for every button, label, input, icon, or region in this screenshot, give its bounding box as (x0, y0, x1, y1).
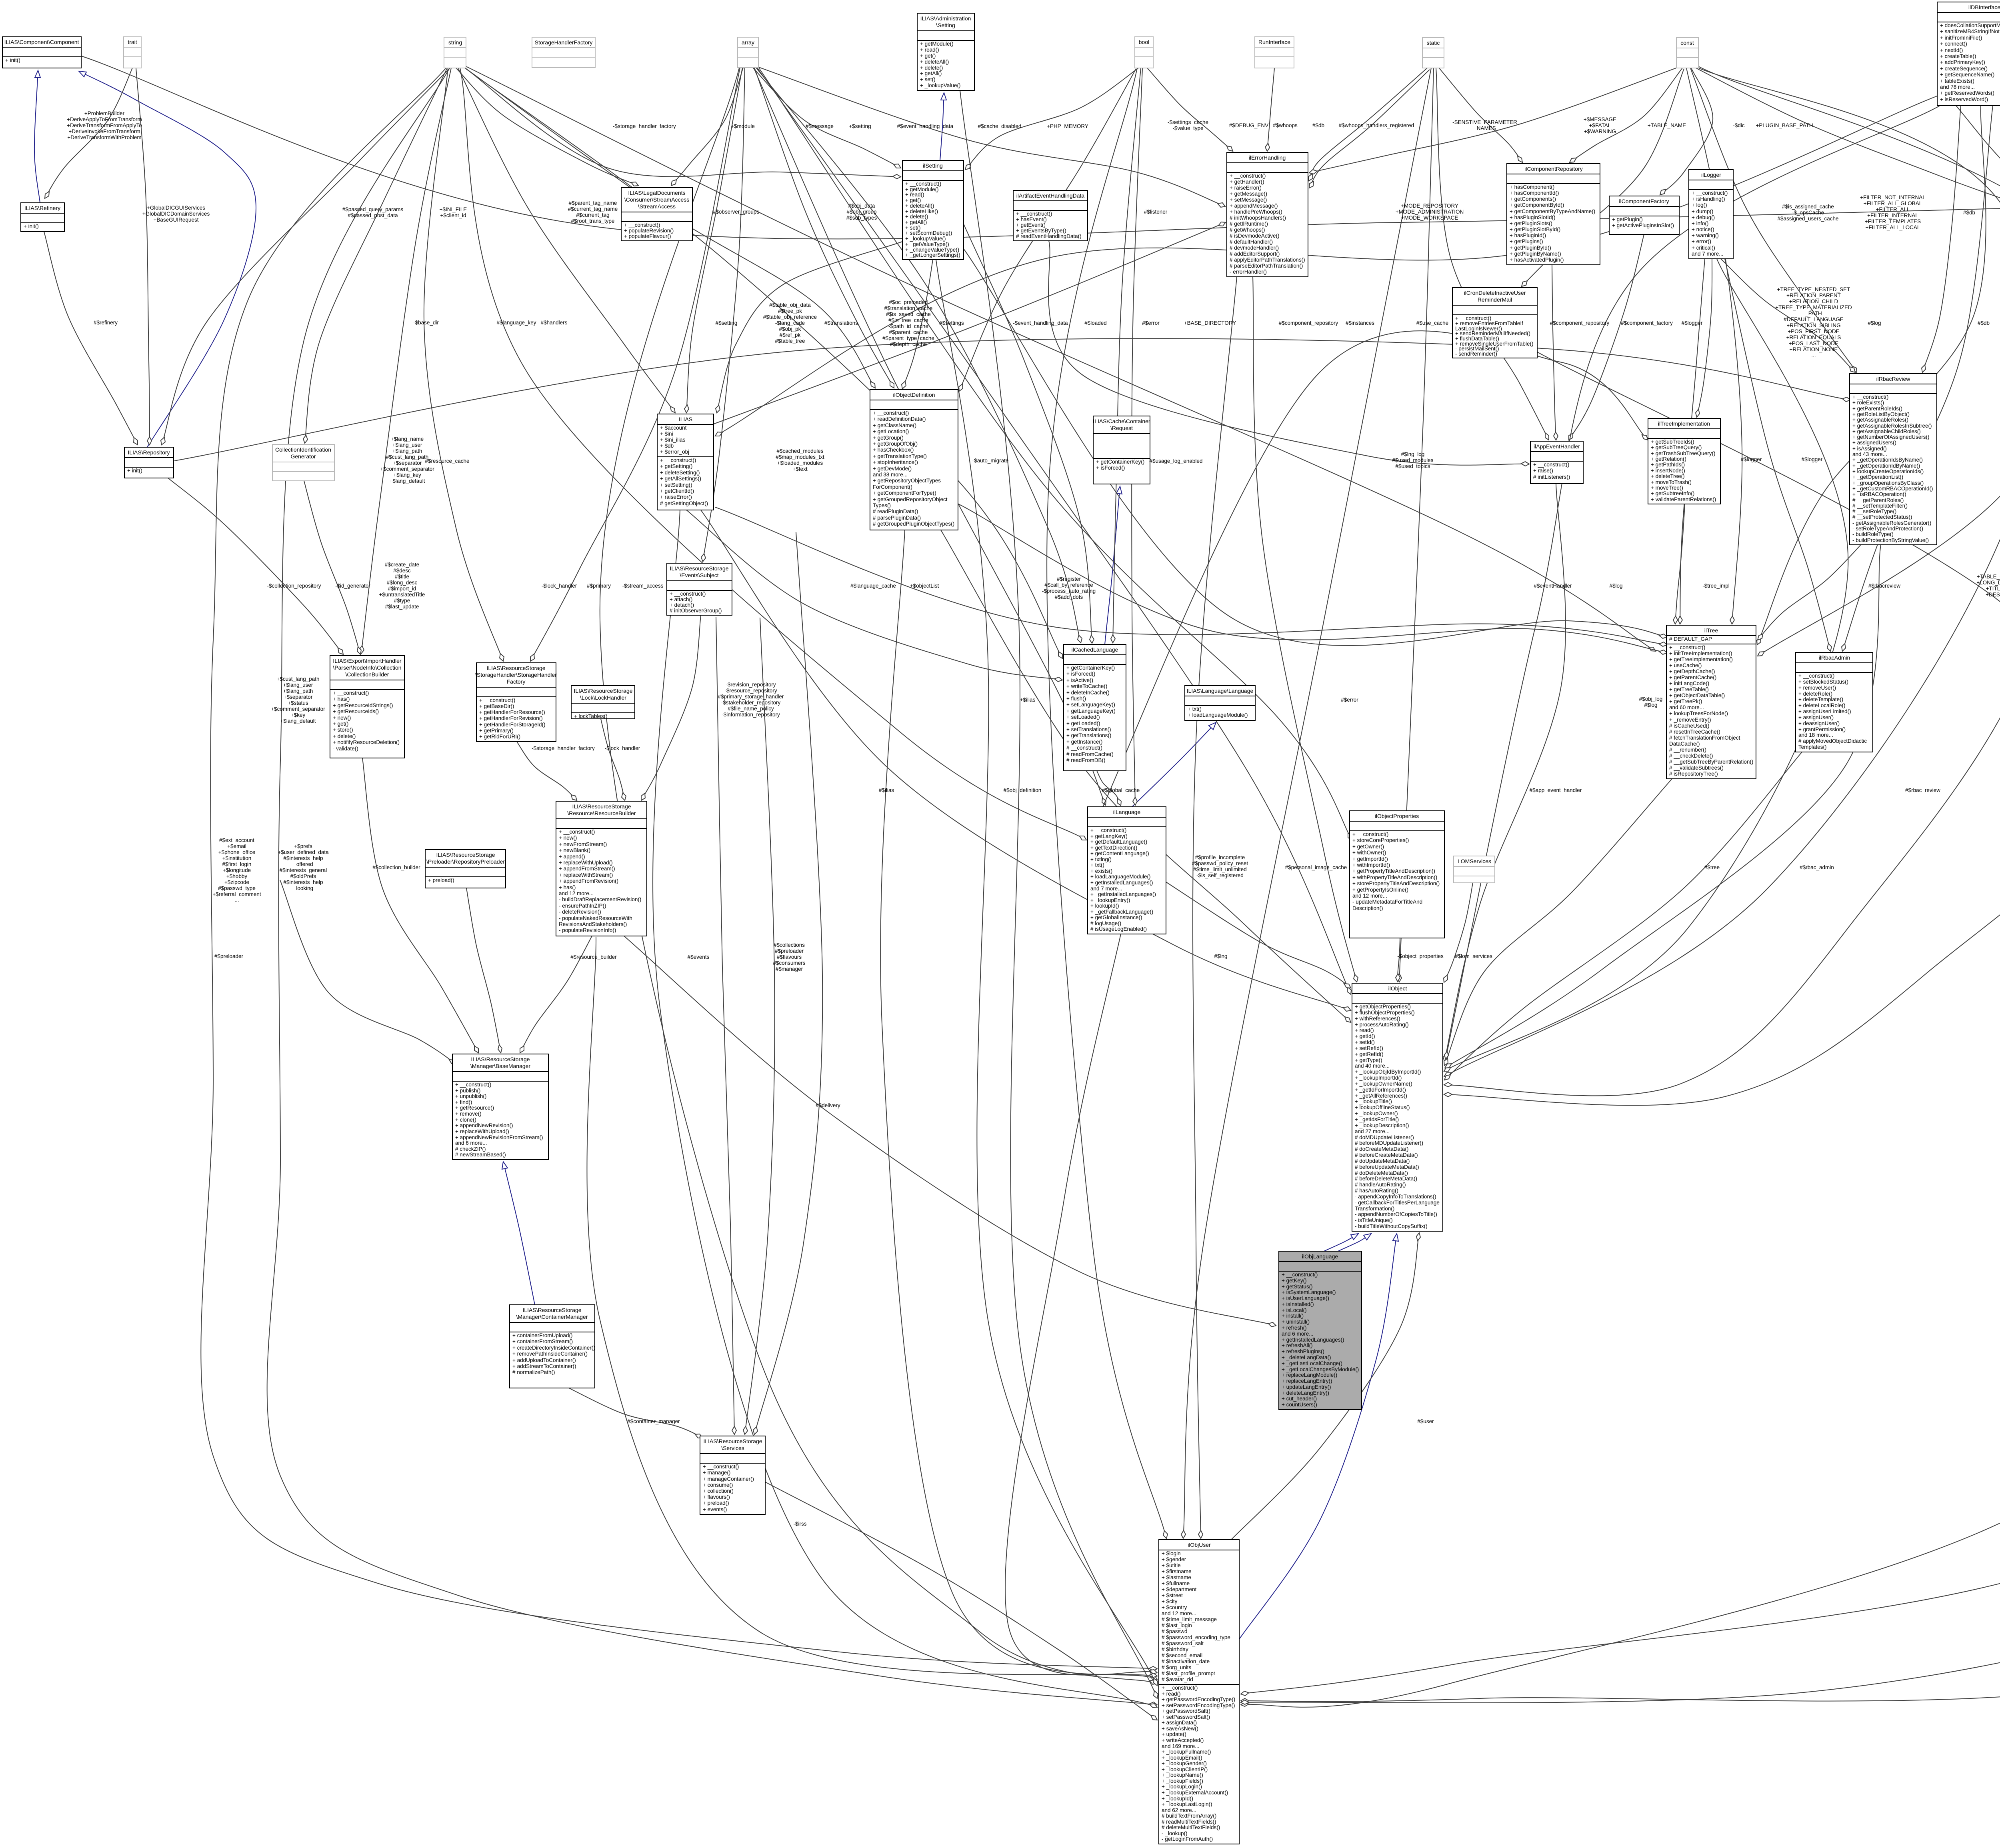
class AdminSetting (917, 13, 974, 90)
svg-text:#$collections#$preloader#$flav: #$collections#$preloader#$flavours#$cons… (773, 942, 805, 972)
svg-text:ilObjectDefinition: ilObjectDefinition (893, 392, 935, 398)
svg-text:\StorageHandler\StorageHandler: \StorageHandler\StorageHandler (475, 672, 557, 678)
svg-text:+ _lookupEmail(): + _lookupEmail() (1162, 1755, 1202, 1761)
svg-text:and 60 more...: and 60 more... (1669, 704, 1704, 710)
svg-text:+ storeCoreProperties(): + storeCoreProperties() (1352, 837, 1409, 843)
svg-text:#$usage_log_enabled: #$usage_log_enabled (1150, 458, 1203, 464)
svg-text:#$obj_data#$obj_group#$sub_typ: #$obj_data#$obj_group#$sub_types (846, 203, 877, 221)
class RepositoryPreloader (425, 850, 506, 888)
wire string-&gt;SHFactory (424, 68, 503, 661)
svg-text:RunInterface: RunInterface (1258, 39, 1290, 45)
svg-text:+ get(): + get() (333, 721, 348, 727)
svg-text:#$rbacreview: #$rbacreview (1868, 583, 1901, 589)
svg-text:+ notice(): + notice() (1692, 226, 1714, 232)
svg-text:+ processAutoRating(): + processAutoRating() (1355, 1022, 1409, 1028)
svg-text:+ getHandlerForResource(): + getHandlerForResource() (479, 709, 545, 715)
svg-text:+ __construct(): + __construct() (624, 222, 660, 228)
wire Refinery-&gt;Repository (44, 232, 138, 445)
svg-text:+ lookupOfflineStatus(): + lookupOfflineStatus() (1355, 1104, 1410, 1110)
svg-text:ILIAS\ResourceStorage: ILIAS\ResourceStorage (670, 565, 728, 572)
svg-text:+ getPluginSlots(): + getPluginSlots() (1510, 220, 1552, 226)
svg-text:+ getObjectProperties(): + getObjectProperties() (1355, 1004, 1411, 1010)
svg-text:+ new(): + new() (333, 715, 351, 721)
svg-text:#$container_manager: #$container_manager (627, 1418, 680, 1424)
wire ilCronDelete-&gt;ilObjUser (1241, 352, 2000, 1707)
svg-text:ReminderMail: ReminderMail (1478, 296, 1512, 303)
svg-text:#$whoops: #$whoops (1273, 122, 1298, 128)
svg-text:ilLanguage: ilLanguage (1113, 809, 1141, 815)
svg-text:+ getComponentForType(): + getComponentForType() (873, 490, 936, 496)
svg-text:ilAppEventHandler: ilAppEventHandler (1534, 443, 1580, 450)
svg-text:+ getInstalledLanguages(): + getInstalledLanguages() (1090, 880, 1153, 886)
svg-text:#$oc_preloaded#$translation_ca: #$oc_preloaded#$translation_cache#$is_sa… (882, 299, 934, 347)
svg-text:+ loadLanguageModule(): + loadLanguageModule() (1188, 712, 1248, 718)
svg-text:ilCronDeleteInactiveUser: ilCronDeleteInactiveUser (1464, 290, 1526, 296)
wire const-&gt;ilComponentRepository (1570, 68, 1682, 162)
svg-text:# __construct(): # __construct() (1066, 745, 1102, 751)
svg-text:+ getRidForURI(): + getRidForURI() (479, 734, 520, 740)
svg-text:- validate(): - validate() (333, 746, 358, 752)
wire array-&gt;Subject (703, 68, 745, 562)
svg-text:+ __construct(): + __construct() (333, 690, 369, 696)
svg-text:# parseEditorPathTranslation(): # parseEditorPathTranslation() (1230, 263, 1303, 269)
class ilRbacAdmin (1796, 652, 1873, 752)
svg-text:+ hasPluginSlotId(): + hasPluginSlotId() (1510, 214, 1555, 220)
svg-text:#$collection_builder: #$collection_builder (372, 864, 420, 870)
svg-text:+ getBaseDir(): + getBaseDir() (479, 703, 514, 709)
wire ilRbacReview-&gt;ilObject (1445, 545, 1881, 1068)
svg-text:+TABLE_NAME: +TABLE_NAME (1648, 122, 1686, 128)
svg-text:+ txtlng(): + txtlng() (1090, 856, 1112, 862)
svg-text:+ dump(): + dump() (1692, 208, 1713, 214)
svg-text:and 38 more...: and 38 more... (873, 472, 908, 478)
svg-text:+ getRefId(): + getRefId() (1355, 1051, 1384, 1057)
wire ilErrorHandling-&gt;ilObject (1253, 277, 1357, 982)
wire ilLogger-&gt;ilTree (1680, 259, 1705, 624)
wire ilObjLanguage-&gt;ilObject2 (1338, 1234, 1371, 1251)
svg-text:+ readDefinitionData(): + readDefinitionData() (873, 416, 926, 422)
wire string-&gt;ilObjUser-b (267, 68, 1157, 1705)
svg-text:+ deleteRole(): + deleteRole() (1798, 691, 1832, 697)
svg-text:ilArtifactEventHandlingData: ilArtifactEventHandlingData (1016, 192, 1085, 199)
svg-text:ILIAS\ResourceStorage: ILIAS\ResourceStorage (572, 803, 631, 810)
svg-text:+ getEvent(): + getEvent() (1016, 222, 1046, 228)
class ilArtifactEventHandlingData (1013, 190, 1088, 241)
svg-text:+ log(): + log() (1692, 202, 1707, 208)
wire ILIAS-&gt;ilObject (701, 510, 1351, 1010)
svg-text:+ getComponentByTypeAndName(): + getComponentByTypeAndName() (1510, 208, 1595, 214)
svg-text:+ read(): + read() (905, 192, 924, 198)
svg-text:+ deleteAll(): + deleteAll() (920, 59, 949, 65)
svg-text:#$language_cache: #$language_cache (850, 583, 896, 589)
svg-text:+ __construct(): + __construct() (1016, 211, 1052, 217)
svg-text:#$personal_image_cache: #$personal_image_cache (1285, 864, 1347, 870)
svg-text:+ __construct(): + __construct() (559, 829, 595, 835)
svg-text:+$INI_FILE+$client_id: +$INI_FILE+$client_id (440, 206, 467, 218)
class ContainerManager (510, 1305, 595, 1388)
svg-text:+ getHandlerForStorageId(): + getHandlerForStorageId() (479, 722, 545, 728)
svg-text:ILIAS\ResourceStorage: ILIAS\ResourceStorage (574, 688, 632, 694)
svg-text:+ setRefId(): + setRefId() (1355, 1045, 1383, 1051)
svg-text:ilTreeImplementation: ilTreeImplementation (1658, 420, 1710, 427)
wire ilTreeImpl-&gt;ilTree (1675, 504, 1685, 624)
svg-text:and 12 more...: and 12 more... (1162, 1610, 1196, 1616)
svg-text:ILIAS\ResourceStorage: ILIAS\ResourceStorage (471, 1056, 530, 1062)
svg-text:LOMServices: LOMServices (1458, 858, 1491, 864)
wire BaseManager-&gt;Services-1 (716, 617, 734, 1434)
svg-text:-$dic: -$dic (1733, 122, 1745, 128)
svg-text:+FILTER_NOT_INTERNAL+FILTER_AL: +FILTER_NOT_INTERNAL+FILTER_ALL_GLOBAL+F… (1860, 194, 1926, 230)
svg-text:+ getInstalledLanguages(): + getInstalledLanguages() (1282, 1337, 1344, 1343)
svg-text:+ new(): + new() (559, 835, 577, 841)
class Refinery (21, 203, 64, 232)
wire busA-left-right (81, 56, 2000, 239)
wire ilErrorHandling-&gt;ilObjUser (1193, 277, 1237, 1538)
wire string-&gt;ilLanguage (460, 68, 1086, 840)
svg-text:+ getDefaultLanguage(): + getDefaultLanguage() (1090, 839, 1147, 845)
svg-text:#$lng: #$lng (1214, 953, 1227, 959)
class ilComponentRepository (1507, 164, 1600, 265)
svg-text:#$preloader: #$preloader (214, 953, 244, 959)
svg-text:+ isSystemLanguage(): + isSystemLanguage() (1282, 1289, 1336, 1295)
wire ilDBInterface-&gt;ilObject (1444, 106, 2000, 1077)
wire string-&gt;ilCachedLanguage (465, 68, 1062, 658)
svg-text:+ flavours(): + flavours() (703, 1494, 730, 1500)
svg-text:string: string (448, 39, 462, 46)
class Repository (124, 447, 174, 478)
svg-text:-$irss: -$irss (794, 1521, 807, 1527)
svg-text:and 7 more...: and 7 more... (1090, 886, 1122, 892)
svg-text:+ getObjectDataTable(): + getObjectDataTable() (1669, 692, 1725, 698)
svg-text:+ __construct(): + __construct() (660, 457, 696, 463)
wire array-&gt;ilObjUser (600, 68, 1157, 1683)
svg-text:+ attach(): + attach() (670, 596, 692, 602)
svg-text:+ addStreamToContainer(): + addStreamToContainer() (512, 1363, 576, 1369)
svg-text:Templates(): Templates() (1798, 744, 1827, 750)
svg-text:+ getEventsByType(): + getEventsByType() (1016, 228, 1066, 234)
svg-text:+ __construct(): + __construct() (1692, 190, 1728, 196)
svg-text:+ getMessage(): + getMessage() (1230, 191, 1267, 197)
svg-text:+ removePathInsideContainer(): + removePathInsideContainer() (512, 1351, 588, 1357)
svg-text:+ countUsers(): + countUsers() (1282, 1402, 1317, 1408)
svg-text:-$base_dir: -$base_dir (413, 320, 439, 326)
svg-text:+ storePropertyTitleAndDescrip: + storePropertyTitleAndDescription() (1352, 880, 1440, 886)
svg-text:-$storage_handler_factory: -$storage_handler_factory (613, 123, 676, 129)
svg-text:+ getComponents(): + getComponents() (1510, 196, 1556, 202)
svg-text:- sendReminder(): - sendReminder() (1455, 351, 1497, 357)
wire ilLanguage-&gt;ilObjUser (1005, 934, 1157, 1675)
class StreamAccess (621, 188, 692, 241)
svg-text:+ manage(): + manage() (703, 1470, 730, 1476)
svg-text:array: array (742, 39, 754, 46)
wire trait-&gt;Refinery (45, 68, 132, 198)
svg-text:- getAssignableRolesGenerator(: - getAssignableRolesGenerator() (1852, 520, 1931, 526)
svg-text:+ __construct(): + __construct() (703, 1464, 739, 1470)
svg-text:-$stream_access: -$stream_access (622, 583, 664, 589)
svg-text:+ _lookupEntry(): + _lookupEntry() (1090, 897, 1130, 903)
svg-text:ilObjLanguage: ilObjLanguage (1302, 1253, 1338, 1260)
class RunInterface (1255, 37, 1294, 68)
svg-text:# $time_limit_message: # $time_limit_message (1162, 1616, 1217, 1622)
svg-text:#$primary: #$primary (587, 583, 611, 589)
svg-text:\CollectionBuilder: \CollectionBuilder (346, 671, 389, 678)
wire busC-wave (1088, 331, 1648, 840)
svg-text:+PHP_MEMORY: +PHP_MEMORY (1047, 123, 1088, 129)
svg-text:#$component_repository: #$component_repository (1279, 320, 1338, 326)
wire const-&gt;ilObject (1444, 67, 2000, 1096)
wire toIlTree-left-1 (964, 249, 1667, 646)
class ilSetting (902, 160, 964, 260)
svg-text:+ _getOperationList(): + _getOperationList() (1852, 474, 1903, 480)
svg-text:+ getAll(): + getAll() (920, 70, 942, 76)
svg-text:# beforeCreateMetaData(): # beforeCreateMetaData() (1355, 1152, 1418, 1158)
class ilErrorHandling (1227, 152, 1308, 277)
wire toServices-3 (754, 532, 822, 1434)
svg-text:\Lock\LockHandler: \Lock\LockHandler (580, 694, 626, 701)
svg-text:# $password_encoding_type: # $password_encoding_type (1162, 1634, 1230, 1640)
svg-text:ILIAS\Export\ImportHandler: ILIAS\Export\ImportHandler (333, 658, 402, 664)
svg-text:# addEditorSupport(): # addEditorSupport() (1230, 251, 1280, 257)
wire toIlTree-left-2 (715, 507, 1667, 645)
svg-text:- buildTitleWithoutCopySuffix(: - buildTitleWithoutCopySuffix() (1355, 1223, 1428, 1229)
class Component (2, 37, 81, 68)
svg-text:#$rbac_admin: #$rbac_admin (1800, 864, 1834, 870)
svg-text:+ getTrashSubTreeQuery(): + getTrashSubTreeQuery() (1651, 450, 1715, 456)
svg-text:ilCachedLanguage: ilCachedLanguage (1072, 646, 1118, 653)
svg-text:+ hasComponent(): + hasComponent() (1510, 184, 1554, 190)
svg-text:+ initTreeImplementation(): + initTreeImplementation() (1669, 650, 1732, 656)
wire const-&gt;ilCronDelete (1522, 69, 1684, 286)
svg-text:+ $department: + $department (1162, 1586, 1197, 1592)
svg-text:static: static (1427, 40, 1440, 46)
svg-text:DataCache(): DataCache() (1669, 741, 1700, 747)
svg-text:# buildTextFromArray(): # buildTextFromArray() (1162, 1813, 1216, 1819)
svg-text:-$revision_repository-$resourc: -$revision_repository-$resource_reposito… (718, 682, 784, 718)
svg-text:# getGroupedPluginObjectTypes(: # getGroupedPluginObjectTypes() (873, 521, 954, 527)
wire string-&gt;ILIAS (458, 68, 675, 413)
wire ilArtifact-&gt;ilAppEventHandler (1048, 241, 1529, 465)
svg-text:# $passwd: # $passwd (1162, 1628, 1188, 1634)
svg-text:+ getRoleListByObject(): + getRoleListByObject() (1852, 411, 1910, 417)
wire const-&gt;ilRbacReview (1690, 68, 1857, 372)
svg-text:\Preloader\RepositoryPreloader: \Preloader\RepositoryPreloader (426, 858, 505, 865)
svg-text:+ __construct(): + __construct() (670, 591, 706, 597)
svg-text:+ isHandling(): + isHandling() (1692, 196, 1725, 202)
svg-text:+ getNumberOfAssignedUsers(): + getNumberOfAssignedUsers() (1852, 434, 1929, 440)
wire string-&gt;ilSetting (464, 67, 901, 177)
svg-text:+ loadLanguageModule(): + loadLanguageModule() (1090, 874, 1151, 880)
wire ilLogger-&gt;ilTreeImplementation (1697, 259, 1712, 417)
svg-text:+ deleteLocalRole(): + deleteLocalRole() (1798, 702, 1845, 708)
wire ilLanguage-&gt;LanguageBox (1132, 722, 1216, 807)
svg-text:# DEFAULT_GAP: # DEFAULT_GAP (1669, 636, 1712, 642)
svg-text:+ saveAsNew(): + saveAsNew() (1162, 1726, 1198, 1732)
svg-text:# initObserverGroup(): # initObserverGroup() (670, 608, 722, 614)
svg-text:#$profile_incomplete#$passwd_p: #$profile_incomplete#$passwd_policy_rese… (1192, 854, 1248, 878)
svg-text:+ getHandler(): + getHandler() (1230, 179, 1264, 185)
svg-text:-$object_properties: -$object_properties (1397, 953, 1444, 959)
svg-text:+ _lookupExternalAccount(): + _lookupExternalAccount() (1162, 1790, 1228, 1796)
svg-text:+ has(): + has() (559, 884, 576, 890)
svg-text:+ _lookupDescription(): + _lookupDescription() (1355, 1122, 1409, 1128)
svg-text:ilErrorHandling: ilErrorHandling (1249, 154, 1286, 161)
svg-text:- appendCopyInfoToTranslations: - appendCopyInfoToTranslations() (1355, 1194, 1436, 1200)
svg-text:+ error(): + error() (1692, 238, 1711, 244)
svg-text:+ isForced(): + isForced() (1066, 671, 1095, 677)
wire ilObjUser-&gt;ilObject-user (1231, 1233, 1419, 1540)
wire ilRbacAdmin-&gt;ilObject (1444, 752, 1802, 1080)
svg-text:#$translations: #$translations (824, 320, 858, 326)
svg-text:#$user: #$user (1417, 1418, 1434, 1424)
svg-text:+ getAssignableRolesInSubtree(: + getAssignableRolesInSubtree() (1852, 423, 1932, 429)
svg-text:#$refinery: #$refinery (94, 320, 118, 326)
svg-text:+$objectList: +$objectList (910, 583, 939, 589)
wire ilObjectDefinition-&gt;ilObject (941, 530, 1351, 1022)
svg-text:+ appendNewRevisionFromStream(: + appendNewRevisionFromStream() (455, 1134, 543, 1140)
svg-text:+ getPluginById(): + getPluginById() (1510, 245, 1551, 251)
svg-text:+ __construct(): + __construct() (1282, 1272, 1318, 1278)
svg-text:+ __construct(): + __construct() (1798, 673, 1834, 679)
svg-text:# devmodeHandler(): # devmodeHandler() (1230, 245, 1279, 251)
svg-text:+ validateParentRelations(): + validateParentRelations() (1651, 496, 1716, 502)
wire ilLanguage-&gt;ilObject (1166, 882, 1351, 988)
svg-text:+ __construct(): + __construct() (455, 1082, 491, 1088)
svg-text:#$instances: #$instances (1346, 320, 1374, 326)
svg-text:\Events\Subject: \Events\Subject (680, 572, 718, 578)
svg-text:ilObjectProperties: ilObjectProperties (1375, 813, 1419, 819)
svg-text:+ __construct(): + __construct() (1090, 827, 1126, 833)
wire ilAppEventHandler-&gt;ilObject (1444, 484, 1566, 1062)
svg-text:+ getParentRoleIds(): + getParentRoleIds() (1852, 406, 1902, 412)
svg-text:+ assignUserLimited(): + assignUserLimited() (1798, 708, 1851, 714)
svg-text:+ _isRBACOperation(): + _isRBACOperation() (1852, 491, 1906, 497)
svg-text:+ $utitle: + $utitle (1162, 1562, 1181, 1568)
svg-text:+ getPlugins(): + getPlugins() (1510, 238, 1543, 244)
svg-text:- getCallbackForTitlesPerLangu: - getCallbackForTitlesPerLanguage (1355, 1200, 1440, 1206)
svg-text:+ $street: + $street (1162, 1592, 1183, 1598)
svg-text:+ getSetting(): + getSetting() (660, 463, 692, 469)
svg-text:-$id_generator: -$id_generator (335, 583, 370, 589)
svg-text:# __getParentRoles(): # __getParentRoles() (1852, 497, 1904, 503)
class ilObjUser (1159, 1540, 1239, 1844)
svg-text:+ getPrimary(): + getPrimary() (479, 728, 514, 734)
svg-text:#$passed_query_params#$passed_: #$passed_query_params#$passed_post_data (342, 206, 404, 218)
svg-text:# beforeUpdateMetaData(): # beforeUpdateMetaData() (1355, 1164, 1419, 1170)
svg-text:ilObject: ilObject (1388, 985, 1407, 992)
svg-text:ilSetting: ilSetting (923, 162, 943, 169)
wire int-&gt;ilObject (1444, 68, 2000, 1105)
svg-text:# $org_units: # $org_units (1162, 1664, 1192, 1670)
wire ilSetting-&gt;ilObjUser (936, 260, 1157, 1686)
svg-text:# readFromDB(): # readFromDB() (1066, 757, 1106, 763)
wire array-&gt;ilObjectProperties (758, 67, 1352, 840)
svg-text:+ notififyResourceDeletion(): + notififyResourceDeletion() (333, 739, 400, 745)
svg-text:#$db: #$db (1312, 122, 1324, 128)
svg-text:+ getSequenceName(): + getSequenceName() (1940, 72, 1994, 78)
svg-text:+ _groupOperationsByClass(): + _groupOperationsByClass() (1852, 480, 1924, 486)
svg-text:#$cache_disabled: #$cache_disabled (978, 123, 1022, 129)
svg-text:# normalizePath(): # normalizePath() (512, 1369, 555, 1375)
wire ilLogger-&gt;ilRbacAdmin (1725, 259, 1830, 651)
svg-text:+ stopInheritance(): + stopInheritance() (873, 459, 918, 465)
svg-text:+$setting: +$setting (849, 123, 871, 129)
svg-text:+ getTreePk(): + getTreePk() (1669, 698, 1702, 704)
svg-text:#$listener: #$listener (1144, 209, 1168, 215)
svg-text:+ __construct(): + __construct() (1352, 831, 1388, 837)
svg-text:+ getAll(): + getAll() (905, 219, 927, 225)
svg-text:Types(): Types() (873, 502, 891, 508)
wire bool-&gt;ilErrorHandling (1147, 68, 1233, 151)
wire ContainerManager-&gt;Services (569, 1388, 702, 1438)
wire toServices-2 (745, 618, 775, 1434)
svg-text:+ hasEvent(): + hasEvent() (1016, 216, 1047, 222)
svg-text:# __setRoleType(): # __setRoleType() (1852, 508, 1896, 514)
svg-text:ILIAS\Language\Language: ILIAS\Language\Language (1187, 688, 1254, 694)
svg-text:+ sanitizeMB4StringIfNotSuppor: + sanitizeMB4StringIfNotSupported() (1940, 28, 2000, 34)
wire ilComponentRepository-&gt;ilAppEventHandler (1552, 265, 1556, 440)
wire const-&gt;ilObjectDIC (1694, 67, 2000, 205)
svg-text:+ raise(): + raise() (1533, 468, 1553, 474)
svg-text:+ __construct(): + __construct() (873, 410, 909, 416)
svg-text:+ find(): + find() (455, 1099, 472, 1105)
svg-text:# isRepositoryTree(): # isRepositoryTree() (1669, 771, 1718, 777)
svg-text:+ $gender: + $gender (1162, 1556, 1186, 1562)
wire ilSetting-&gt;AdminSetting (940, 93, 944, 160)
svg-text:\StreamAccess: \StreamAccess (638, 203, 676, 210)
wire LOMServices-&gt;ilObject (1444, 883, 1473, 982)
svg-text:+ warning(): + warning() (1692, 232, 1719, 238)
svg-text:and 7 more...: and 7 more... (1692, 251, 1724, 257)
svg-text:+ events(): + events() (703, 1506, 727, 1512)
svg-text:+ isUserLanguage(): + isUserLanguage() (1282, 1295, 1329, 1301)
svg-text:and 78 more...: and 78 more... (1940, 84, 1975, 90)
class ilTree (1666, 625, 1756, 779)
wire trait-&gt;Repository (136, 68, 150, 445)
svg-text:+ deleteSetting(): + deleteSetting() (660, 470, 700, 476)
svg-text:+ init(): + init() (24, 223, 39, 229)
svg-text:# fetchTranslationFromObject: # fetchTranslationFromObject (1669, 735, 1740, 741)
svg-text:ILIAS\Cache\Container: ILIAS\Cache\Container (1093, 418, 1150, 424)
svg-text:- ensurePathInZIP(): - ensurePathInZIP() (559, 903, 606, 909)
svg-text:+ raiseError(): + raiseError() (1230, 185, 1262, 191)
wire array-&gt;ilObjectDefinition (754, 68, 894, 388)
svg-text:+ containerFromUpload(): + containerFromUpload() (512, 1332, 572, 1338)
wire AdminSetting-&gt;ilObjUser (960, 90, 1157, 1698)
svg-text:+ connect(): + connect() (1940, 41, 1967, 47)
svg-text:+ delete(): + delete() (920, 65, 943, 71)
svg-text:+ getGlobalInstance(): + getGlobalInstance() (1090, 914, 1142, 920)
wire ilCachedLanguage-&gt;CacheRequest (1105, 486, 1120, 644)
svg-text:+ setLanguageKey(): + setLanguageKey() (1066, 702, 1115, 708)
svg-text:+ has(): + has() (333, 696, 350, 702)
svg-text:#$db: #$db (1978, 320, 1990, 326)
svg-text:# $second_email: # $second_email (1162, 1652, 1202, 1658)
svg-text:# $avatar_rid: # $avatar_rid (1162, 1676, 1193, 1682)
svg-text:#$setting: #$setting (716, 320, 738, 326)
svg-text:+ deleteAll(): + deleteAll() (905, 203, 934, 209)
svg-text:# readPluginData(): # readPluginData() (873, 508, 918, 514)
svg-text:ilDBInterface: ilDBInterface (1968, 4, 2000, 10)
svg-text:+ cut_header(): + cut_header() (1282, 1396, 1317, 1402)
svg-text:+ getImportId(): + getImportId() (1352, 856, 1388, 862)
svg-text:and 18 more...: and 18 more... (1798, 732, 1833, 738)
svg-text:+ $ini_ilias: + $ini_ilias (660, 437, 686, 443)
svg-text:#$error: #$error (1341, 697, 1358, 703)
svg-text:+ remove(): + remove() (455, 1111, 482, 1117)
wire static-&gt;ilAppEventHandler (1436, 68, 1549, 440)
svg-text:+ deleteTree(): + deleteTree() (1651, 473, 1685, 479)
wire bool-&gt;ilCachedLanguage (1113, 68, 1141, 643)
